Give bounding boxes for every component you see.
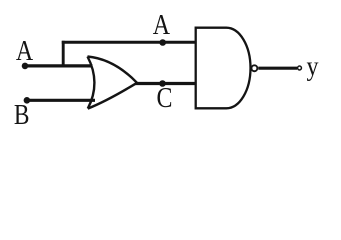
node A input terminal dot <box>22 63 29 70</box>
wire: OR output C to NAND <box>135 82 196 85</box>
node y output terminal circle <box>298 66 302 70</box>
wire: top horizontal A branch to NAND <box>62 41 196 44</box>
node B input terminal dot <box>24 97 31 104</box>
node A junction dot on top wire <box>159 39 166 46</box>
OR gate <box>88 57 95 109</box>
svg-text:C: C <box>157 82 173 113</box>
wire: vertical branch from A <box>62 41 65 66</box>
wire: NAND output <box>258 67 297 70</box>
NAND gate body <box>196 28 251 109</box>
svg-text:y: y <box>307 51 319 82</box>
wire: input B horizontal <box>27 99 95 102</box>
NAND inversion bubble <box>251 65 257 71</box>
svg-text:B: B <box>14 99 30 131</box>
node C junction dot <box>159 80 166 87</box>
svg-text:A: A <box>153 9 170 40</box>
wire: input A horizontal <box>25 64 93 67</box>
svg-text:A: A <box>16 35 33 66</box>
